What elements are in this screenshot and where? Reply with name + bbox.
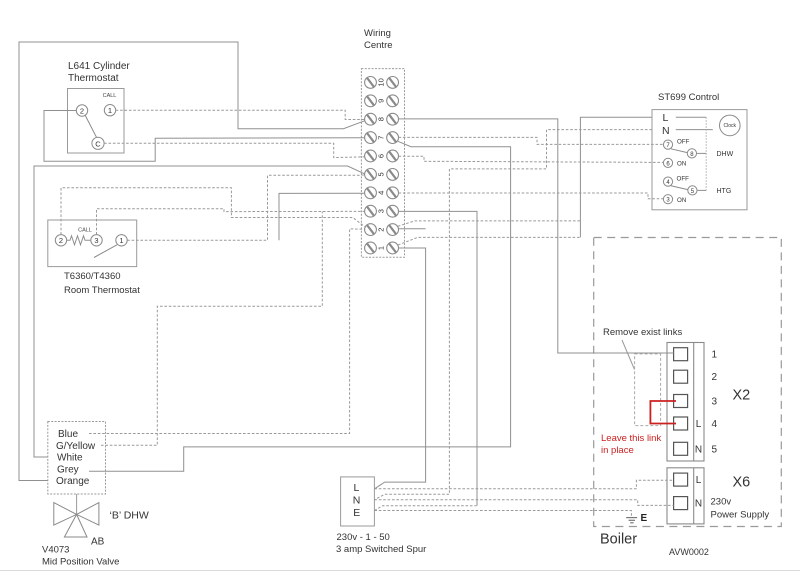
- wiring centre terminal 8: [365, 113, 399, 125]
- wire WC terminal 8 to boiler X2 terminal 1: [399, 119, 674, 353]
- wire WC terminal 2 link to live riser: [399, 228, 426, 230]
- svg-text:L: L: [354, 482, 360, 494]
- svg-text:L: L: [696, 419, 702, 430]
- red link wire between X2-3 and X2-4: [650, 401, 676, 424]
- svg-text:5: 5: [377, 172, 386, 176]
- svg-text:OFF: OFF: [677, 139, 690, 146]
- svg-text:10: 10: [377, 78, 386, 86]
- svg-text:3: 3: [712, 397, 718, 408]
- svg-text:‘B’ DHW: ‘B’ DHW: [110, 509, 149, 521]
- svg-text:N: N: [353, 494, 361, 506]
- wire T6360 terminal 1 branch to WC terminal 4: [279, 193, 364, 240]
- svg-text:L: L: [696, 475, 702, 486]
- svg-text:3 amp Switched Spur: 3 amp Switched Spur: [336, 544, 426, 555]
- svg-text:T6360/T4360: T6360/T4360: [64, 271, 121, 282]
- svg-text:1: 1: [377, 246, 386, 250]
- wire T6360 terminal 3 to WC terminal 3: [97, 209, 365, 235]
- svg-text:6: 6: [377, 154, 386, 158]
- T6360 terminal 1: [116, 235, 127, 246]
- svg-text:X2: X2: [733, 388, 751, 404]
- V4073 valve wiring box: [48, 422, 106, 495]
- svg-text:1: 1: [712, 350, 718, 361]
- svg-text:Boiler: Boiler: [600, 532, 637, 548]
- wire WC terminal 1 to spur L riser: [374, 248, 425, 489]
- X2 terminal 3: [674, 395, 718, 408]
- ST699 terminal 8 link to riser: [697, 152, 707, 154]
- wire valve white to WC terminal 5: [34, 166, 365, 457]
- wire WC terminal 3 down to spur E branch: [399, 211, 478, 505]
- svg-text:AVW0002: AVW0002: [669, 547, 709, 557]
- svg-text:Power Supply: Power Supply: [711, 510, 770, 521]
- T6360 switch contact arm: [94, 245, 117, 258]
- svg-text:4: 4: [712, 419, 718, 430]
- valve left port triangle: [54, 503, 77, 525]
- wire WC terminal 7 to valve grey: [89, 141, 511, 471]
- ST699 internal L line: [676, 116, 706, 118]
- boiler terminal block X6: [667, 468, 704, 524]
- X2 terminal 5: [674, 442, 718, 455]
- X6 terminal N: [674, 497, 703, 510]
- wiring centre terminal 3: [365, 205, 399, 217]
- wiring centre terminal 10: [365, 77, 399, 89]
- wire L641 terminal 2 to WC terminal 7: [44, 111, 364, 162]
- L641 terminal 2: [76, 105, 87, 116]
- svg-text:2: 2: [377, 228, 386, 232]
- svg-text:8: 8: [377, 117, 386, 121]
- wiring centre terminal 2: [365, 224, 399, 236]
- svg-text:E: E: [353, 507, 360, 519]
- T6360 room thermostat label: [64, 271, 140, 296]
- X6 terminal L: [674, 473, 702, 486]
- bottom faint scan line: [0, 570, 800, 572]
- svg-text:L: L: [663, 112, 669, 124]
- svg-text:4: 4: [377, 191, 386, 195]
- T6360 room thermostat box: [48, 220, 137, 267]
- svg-text:9: 9: [377, 99, 386, 103]
- L641 terminal 1: [104, 105, 115, 116]
- V4073 mid position valve label: [42, 545, 119, 568]
- wiring centre terminal 9: [365, 95, 399, 107]
- earth symbol: [626, 518, 637, 523]
- svg-text:Thermostat: Thermostat: [68, 73, 119, 84]
- svg-text:CALL: CALL: [78, 228, 92, 234]
- svg-text:ST699 Control: ST699 Control: [658, 92, 719, 103]
- ST699 terminal 4: [663, 177, 672, 186]
- svg-text:ON: ON: [677, 161, 686, 168]
- svg-text:White: White: [57, 453, 83, 464]
- wiring centre terminal 6: [365, 150, 399, 162]
- svg-text:7: 7: [377, 136, 386, 140]
- svg-text:Blue: Blue: [58, 429, 78, 440]
- svg-text:AB: AB: [91, 536, 105, 547]
- X2 terminal 4: [674, 417, 718, 430]
- svg-text:N: N: [695, 444, 702, 455]
- wiring centre terminal 7: [365, 132, 399, 144]
- svg-text:N: N: [662, 125, 670, 137]
- wire WC terminal 7 to ST699 terminal 7: [399, 137, 664, 144]
- ST699 terminal 7: [663, 140, 672, 149]
- wiring centre terminal 1: [365, 242, 399, 254]
- svg-text:2: 2: [59, 236, 63, 245]
- svg-text:Centre: Centre: [364, 40, 393, 51]
- L641 switch contact arm: [85, 116, 96, 138]
- svg-text:ON: ON: [677, 197, 686, 204]
- ST699 terminal 5: [688, 186, 697, 195]
- valve right port triangle: [77, 503, 99, 525]
- svg-text:L641 Cylinder: L641 Cylinder: [68, 61, 130, 72]
- svg-text:3: 3: [94, 236, 98, 245]
- node Leave this link in place label: [601, 433, 661, 456]
- svg-text:N: N: [695, 499, 702, 510]
- svg-text:1: 1: [119, 236, 123, 245]
- ST699 clock: [720, 115, 741, 136]
- boiler enclosure dashed box: [594, 238, 782, 527]
- T6360 terminal 3: [91, 235, 102, 246]
- svg-text:CALL: CALL: [103, 93, 117, 99]
- remove links pointer line: [622, 340, 635, 370]
- svg-text:Orange: Orange: [56, 476, 90, 487]
- svg-text:HTG: HTG: [717, 188, 732, 195]
- wire spur E to earth symbol: [374, 511, 631, 518]
- svg-text:Grey: Grey: [57, 465, 79, 476]
- svg-text:2: 2: [712, 372, 718, 383]
- svg-text:2: 2: [80, 106, 84, 115]
- svg-text:1: 1: [108, 106, 112, 115]
- svg-text:Leave this link: Leave this link: [601, 433, 661, 444]
- thermostat L641 box: [68, 89, 125, 154]
- T6360 terminal 2: [55, 235, 66, 246]
- X2 terminal 1: [674, 348, 718, 361]
- wire ST699 L to live riser down: [580, 117, 652, 237]
- wire T6360 terminal 1 to WC terminal 5: [127, 175, 364, 240]
- svg-text:G/Yellow: G/Yellow: [56, 441, 96, 452]
- svg-text:5: 5: [712, 444, 718, 455]
- svg-text:E: E: [641, 513, 648, 524]
- wire L641 terminal 1 to WC terminal 8: [116, 110, 365, 119]
- wire spur E branch to WC terminal 3 riser: [374, 506, 476, 511]
- svg-text:230v - 1 - 50: 230v - 1 - 50: [337, 532, 390, 543]
- wire valve g-yellow riser to room stat wire junction: [101, 212, 322, 446]
- svg-text:in place: in place: [601, 445, 634, 456]
- ST699 terminal 6: [663, 158, 672, 167]
- ST699 DHW switch arm: [671, 149, 687, 153]
- wiring centre terminal 5: [365, 169, 399, 181]
- wire ST699 N to spur N riser: [374, 130, 652, 500]
- svg-text:Room Thermostat: Room Thermostat: [64, 285, 140, 296]
- T6360 heat anticipator resistor: [67, 236, 91, 245]
- ST699 terminal 3: [663, 195, 672, 204]
- node 230v power supply label: [711, 497, 770, 521]
- svg-text:C: C: [95, 139, 101, 148]
- ST699 terminal 8: [687, 149, 696, 158]
- svg-text:Mid Position Valve: Mid Position Valve: [42, 557, 119, 568]
- valve bottom AB port triangle: [64, 514, 87, 537]
- programmer ST699 box: [652, 110, 747, 210]
- wire L641 terminal C to WC terminal 6: [104, 143, 364, 157]
- wire T6360 terminal 2 to WC terminal 2: [61, 188, 365, 235]
- wire spur N to boiler X6 N: [374, 500, 673, 506]
- ST699 HTG switch arm: [671, 186, 688, 190]
- wire WC terminal 4 to ST699 terminal 3: [399, 193, 664, 199]
- svg-text:X6: X6: [733, 475, 751, 491]
- node Wiring Centre label: [364, 28, 393, 51]
- wiring centre terminal 4: [365, 187, 399, 199]
- L641 cylinder thermostat label: [68, 61, 130, 84]
- wire spur L to boiler X6 L: [374, 480, 673, 489]
- svg-text:OFF: OFF: [677, 176, 690, 183]
- svg-text:V4073: V4073: [42, 545, 69, 556]
- svg-text:Remove exist links: Remove exist links: [603, 327, 682, 338]
- svg-text:230v: 230v: [711, 497, 732, 508]
- ST699 terminal 5 link to riser: [697, 189, 706, 191]
- wire valve orange to WC terminal 8: [19, 42, 365, 481]
- L641 terminal C: [92, 137, 104, 149]
- svg-text:3: 3: [377, 209, 386, 213]
- wire WC terminal 2 to ST699 L riser: [398, 221, 581, 226]
- svg-text:Clock: Clock: [724, 123, 737, 129]
- X2 terminal 2: [674, 370, 718, 383]
- wiring centre terminal strip box: [361, 69, 404, 258]
- svg-text:Wiring: Wiring: [364, 28, 391, 39]
- switched spur box: [341, 477, 375, 526]
- svg-text:DHW: DHW: [717, 151, 734, 158]
- valve stem: [76, 494, 78, 514]
- wire WC terminal 6 to ST699 terminal 6: [399, 156, 664, 162]
- ST699 internal N line: [676, 129, 713, 131]
- remove links dashed outline: [635, 354, 661, 426]
- ST699 internal feed riser: [705, 117, 707, 190]
- boiler terminal block X2: [667, 343, 704, 462]
- wire WC terminal 1 to ST699 L riser: [398, 237, 580, 245]
- wire valve blue to WC terminal 2: [89, 229, 365, 434]
